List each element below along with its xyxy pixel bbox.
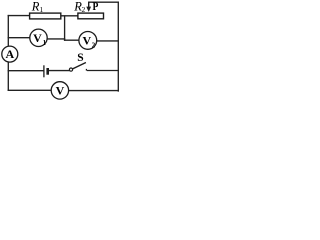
wiper arrow of R2 [88,2,90,7]
wire V1 branch left [8,37,30,39]
wire switch to right edge [88,70,119,72]
switch S pivot [69,68,72,71]
wire left vertical lower [7,62,9,90]
wire battery row left [8,70,44,72]
svg-text:2: 2 [82,5,86,14]
resistor R1 [30,13,61,19]
svg-text:V: V [33,31,42,45]
switch S lever [73,63,86,69]
svg-text:2: 2 [92,42,96,49]
voltmeter V2 [79,32,97,50]
svg-text:V: V [82,34,91,48]
wire between R1 and R2 [61,15,78,17]
svg-text:S: S [77,52,83,64]
svg-text:1: 1 [43,40,47,47]
wire wiper top [89,1,119,3]
svg-text:1: 1 [40,5,44,14]
wire junction vertical [64,16,66,40]
wire top-left horizontal [8,15,29,17]
ammeter A [2,46,18,62]
battery cell long plate [43,65,45,77]
svg-text:A: A [5,47,14,61]
svg-text:P: P [92,0,98,13]
wire bottom V row right [69,90,119,92]
svg-text:R: R [31,0,40,14]
wire V2 to right edge [97,40,119,42]
voltmeter V1 [30,29,47,46]
resistor R2 (potentiometer) [78,13,104,19]
voltmeter V (bottom) [51,82,68,99]
wire V1 to junction [47,38,64,40]
wire left vertical upper [7,16,9,47]
wire battery to switch [49,70,70,72]
wire bottom V row left [8,89,51,91]
wire junction to V2 [65,39,79,41]
wire right vertical [117,2,119,91]
svg-text:V: V [56,84,65,98]
battery cell short thick plate [46,68,49,75]
switch right contact [85,69,87,71]
